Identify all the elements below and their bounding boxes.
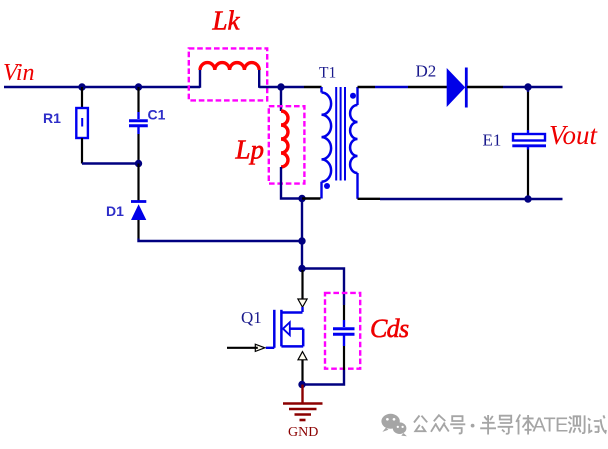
watermark middle dot	[471, 424, 475, 428]
junction dot C1 top	[135, 83, 142, 90]
wire Lk to node	[259, 86, 304, 88]
junction dot output top	[524, 83, 531, 90]
resistor R1	[76, 87, 88, 164]
phase dot primary	[324, 183, 330, 189]
wire E1 top stub	[527, 87, 529, 92]
wire snubber bottom	[302, 370, 344, 385]
ground	[283, 385, 323, 421]
wire T1 secondary bottom (black)	[358, 198, 381, 200]
svg-text:E1: E1	[483, 131, 502, 150]
junction dot D1 node	[298, 237, 305, 244]
junction dot node B	[135, 160, 142, 167]
svg-text:R1: R1	[43, 110, 61, 126]
watermark text 公	[414, 416, 427, 432]
wire snubber top	[302, 269, 344, 306]
phase dot secondary	[350, 93, 356, 99]
wire D2 cathode (black)	[467, 86, 503, 88]
wire Lp to bottom node	[281, 167, 302, 199]
watermark text 试	[588, 415, 606, 432]
watermark wechat icon	[381, 414, 407, 436]
junction dot source node	[298, 381, 305, 388]
capacitor Cds	[333, 305, 355, 370]
pin arrow source	[298, 352, 307, 360]
wire T1 bottom black stub	[302, 197, 321, 199]
highlight box Lp	[269, 106, 305, 183]
wire D1 to center node	[139, 239, 304, 242]
capacitor C1	[129, 87, 148, 164]
watermark text 体	[516, 415, 534, 435]
inductor Lk	[200, 63, 259, 88]
svg-text:D2: D2	[416, 62, 437, 81]
svg-text:Vout: Vout	[549, 120, 599, 150]
wire center vertical	[301, 199, 303, 269]
wire secondary rail blue segment	[375, 86, 408, 88]
svg-text:ATE: ATE	[533, 415, 568, 437]
transistor Q1	[266, 307, 303, 348]
diode D2	[447, 68, 467, 108]
wire E1 top (black)	[527, 92, 529, 130]
svg-text:D1: D1	[106, 203, 124, 219]
svg-text:Cds: Cds	[370, 314, 409, 343]
svg-text:C1: C1	[148, 107, 166, 123]
svg-text:Lp: Lp	[235, 135, 265, 165]
pin arrow drain	[298, 299, 307, 307]
svg-text:Lk: Lk	[212, 6, 241, 36]
watermark text 众	[431, 415, 449, 432]
wire output bottom rail	[380, 198, 563, 200]
junction dot snubber node	[298, 265, 305, 272]
junction dot output bottom	[524, 195, 531, 202]
junction dot R1 top	[78, 83, 85, 90]
diode D1	[131, 164, 146, 239]
svg-text:GND: GND	[288, 425, 318, 440]
watermark text 号	[450, 416, 465, 433]
wire T1 secondary top (black)	[358, 86, 376, 88]
wire to output top	[503, 86, 563, 88]
inductor Lp	[281, 111, 288, 167]
wire R1 bottom to C1 bottom	[82, 162, 139, 164]
watermark text 半	[480, 415, 496, 435]
pin arrow gate	[255, 344, 265, 351]
transformer T1	[322, 87, 358, 199]
svg-text:Vin: Vin	[3, 60, 35, 86]
wire gate (black)	[227, 347, 258, 349]
wire to D2 anode (black)	[408, 86, 447, 88]
wire Vin rail	[4, 86, 200, 88]
wire Lp branch	[280, 87, 282, 111]
svg-text:T1: T1	[319, 65, 336, 82]
highlight box Lk	[189, 48, 267, 100]
highlight box Cds	[325, 293, 360, 369]
watermark text 测	[568, 415, 584, 433]
wire drain (black)	[301, 270, 303, 299]
wire node to T1 pin (black)	[304, 86, 322, 88]
junction dot T1 bottom	[298, 195, 305, 202]
junction node A	[277, 83, 284, 90]
capacitor E1	[512, 130, 546, 198]
svg-text:Q1: Q1	[241, 308, 262, 327]
wire source (black)	[301, 360, 303, 383]
watermark text 导	[498, 416, 514, 434]
